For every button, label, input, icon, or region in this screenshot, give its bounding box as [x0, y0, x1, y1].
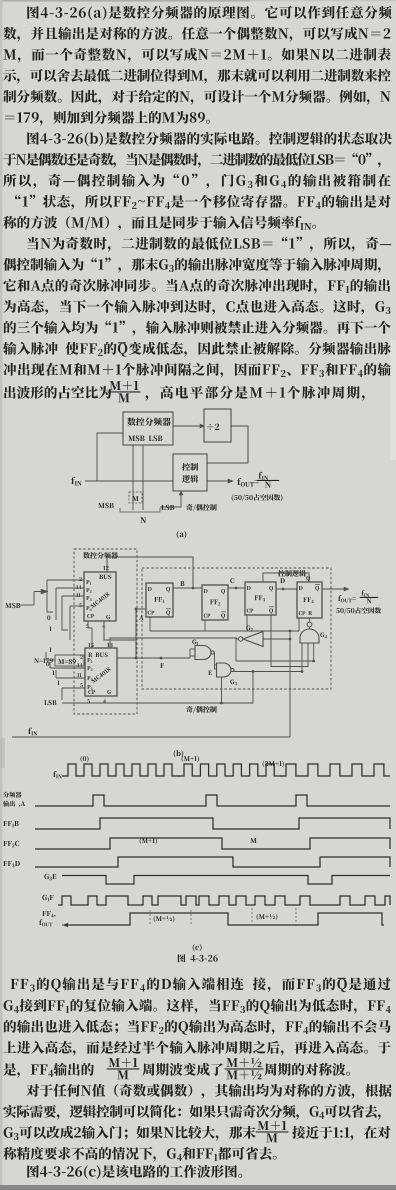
- wire fout b: [322, 588, 348, 590]
- waveform A label2: [3, 801, 25, 807]
- label: [127, 417, 171, 425]
- text line: [3, 69, 390, 84]
- label MSB: [98, 503, 114, 508]
- wire U2 pin13 right: [110, 638, 237, 648]
- label odd-even ctrl: [186, 504, 216, 511]
- label (M+1): [182, 756, 200, 763]
- wire G3 bottom input: [221, 677, 223, 703]
- label N=179: [34, 658, 53, 663]
- clock rail: [150, 630, 299, 632]
- text line: [27, 6, 391, 20]
- text line: [5, 111, 210, 126]
- U2 input stubs: [45, 652, 47, 660]
- clock riser from fin: [289, 631, 291, 737]
- waveform fout arrow: [62, 924, 74, 926]
- label MC4018: [91, 667, 111, 684]
- fout frac: [259, 472, 269, 480]
- label (M+1/2) 1: [154, 916, 175, 923]
- text line: [4, 386, 111, 399]
- wire pin12 up-right: [107, 557, 193, 588]
- text line: [15, 195, 391, 210]
- wire D: [276, 588, 297, 590]
- label fout b: [338, 595, 356, 602]
- waveform F: [58, 896, 390, 905]
- label (0): [81, 756, 89, 763]
- text line: [27, 237, 391, 252]
- arrowhead: [41, 589, 48, 594]
- label G1: [192, 639, 198, 645]
- flip-flop FF3: [245, 582, 276, 615]
- U2 P labels: [87, 658, 92, 663]
- label: [128, 435, 162, 441]
- waveform fout label2: [39, 919, 52, 926]
- label (M+1/2) 2: [257, 914, 278, 921]
- label LSB: [161, 505, 174, 510]
- junction F2: [160, 657, 163, 660]
- M dashed box: [129, 492, 142, 503]
- text line: [26, 1084, 391, 1099]
- wire N msb: [132, 445, 134, 510]
- wire B: [173, 587, 202, 589]
- label A: [139, 615, 144, 620]
- wire odd-even: [62, 672, 253, 703]
- label M=89: [58, 659, 76, 664]
- text line: [27, 1165, 242, 1179]
- label B: [180, 581, 184, 586]
- wire fout: [207, 480, 232, 482]
- label F: [160, 663, 164, 668]
- fout frac b: [361, 590, 369, 597]
- label: [207, 424, 219, 430]
- flip-flop FF2: [202, 585, 228, 620]
- text line: [4, 1126, 256, 1141]
- label R BUS: [88, 653, 107, 658]
- U1 input wires: [47, 579, 84, 581]
- waveform E: [62, 876, 390, 885]
- wire lsb control: [160, 491, 181, 507]
- text line: [4, 321, 391, 336]
- U2 pin numbers: [80, 655, 82, 659]
- waveform F label: [42, 895, 53, 901]
- text line: [3, 1105, 380, 1120]
- text line: [3, 48, 390, 63]
- label D: [280, 578, 285, 583]
- wire N lsb: [142, 445, 144, 510]
- wire divider to div2: [173, 425, 204, 427]
- waveform D label: [3, 861, 20, 867]
- label G2: [246, 625, 253, 631]
- text line: [178, 954, 218, 962]
- label N: [140, 517, 146, 523]
- text line: [292, 1126, 390, 1141]
- label duty: [232, 494, 283, 501]
- text line: [3, 27, 390, 42]
- label: [278, 570, 306, 577]
- text line: [3, 1147, 276, 1162]
- label fout: [237, 478, 259, 487]
- label Q above FF4: [306, 576, 310, 581]
- label (2M+1): [263, 761, 284, 768]
- wire fin: [85, 480, 173, 482]
- junction C: [235, 587, 238, 590]
- waveform fout: [70, 913, 384, 925]
- fraction: [110, 381, 139, 390]
- wire E vertical: [214, 653, 216, 670]
- text line: [3, 279, 390, 294]
- text line: [146, 386, 365, 401]
- digit labels: [49, 647, 51, 652]
- U1 P labels: [86, 580, 91, 585]
- waveform B label: [3, 821, 18, 827]
- text line: [3, 216, 316, 231]
- label odd-even: [186, 706, 216, 713]
- caption a: [177, 531, 187, 539]
- flip-flop FF1: [146, 583, 173, 617]
- dashed box digital divider: [74, 549, 137, 714]
- gate G3: [217, 663, 232, 677]
- wire A down to F: [135, 640, 137, 658]
- label: [182, 463, 198, 471]
- label CP G: [88, 690, 95, 694]
- junction D: [282, 588, 285, 591]
- waveform fin clock3: [280, 764, 390, 776]
- waveform A label: [3, 792, 21, 798]
- text line: [3, 363, 390, 378]
- caption c: [193, 944, 202, 952]
- wire C: [228, 587, 245, 589]
- waveform C label: [3, 841, 19, 847]
- label duty b: [336, 607, 381, 614]
- IC U2 MC4018: [85, 648, 117, 696]
- U1 pin numbers: [79, 577, 81, 581]
- gate G1: [195, 646, 211, 660]
- waveform fin label: [53, 771, 62, 778]
- text line: [3, 153, 380, 168]
- inverter G2: [243, 632, 263, 647]
- label: [83, 552, 118, 559]
- label (M+1) c: [140, 838, 158, 845]
- wire G3 out rail: [234, 643, 302, 672]
- text line: [264, 1063, 350, 1076]
- label MC4018: [90, 592, 110, 609]
- caption b: [174, 750, 184, 757]
- dashed box control logic: [142, 568, 331, 689]
- wire fin up to divider: [97, 433, 123, 481]
- vignette / smudges: [0, 0, 250, 2]
- IC U1 MC4018: [84, 572, 116, 621]
- control logic box: [173, 454, 207, 491]
- fraction: [226, 1058, 261, 1067]
- U1 bottom pins: [86, 624, 89, 628]
- text line: [142, 1063, 222, 1076]
- waveform fout label: [42, 911, 55, 917]
- text line: [4, 999, 391, 1014]
- digit labels: [47, 615, 50, 620]
- waveform E label: [44, 874, 56, 880]
- label G: [106, 615, 110, 619]
- waveform D: [35, 857, 390, 867]
- junction F1: [135, 657, 138, 660]
- gate G4: [300, 629, 319, 643]
- label fin: [71, 477, 81, 486]
- dashes around labels: [149, 910, 151, 926]
- wire FF3 qbar rail: [271, 615, 308, 667]
- N underbrace: [120, 508, 160, 512]
- CP risers: [149, 617, 151, 631]
- M=89 box: [55, 655, 84, 666]
- label MSB: [5, 603, 20, 608]
- divide-by-2 box: [204, 409, 231, 442]
- label: [182, 475, 198, 483]
- text line: [3, 258, 380, 273]
- text line: [4, 1020, 391, 1035]
- wire U1 G to A: [104, 609, 146, 640]
- label M c: [250, 838, 256, 843]
- waveform A: [35, 795, 390, 806]
- fraction: [258, 1121, 287, 1130]
- wire U2 pin15 to U1: [88, 621, 92, 648]
- wire div2 feedback: [207, 426, 248, 463]
- label CP: [87, 614, 94, 618]
- junction A: [135, 608, 138, 611]
- text line: [3, 300, 390, 315]
- junction dots G4 rails: [301, 670, 304, 673]
- label LSB: [44, 700, 56, 705]
- fraction: [109, 1058, 138, 1067]
- wire G2 in: [263, 638, 290, 640]
- text line: [3, 1041, 390, 1056]
- block diagram a: divider box: [123, 412, 173, 445]
- waveform C: [35, 838, 390, 849]
- wire G2 out rail: [236, 639, 314, 661]
- fin line b: [12, 736, 290, 738]
- label C: [230, 578, 234, 583]
- label pins15 13: [88, 643, 93, 647]
- wire G1 inputs: [190, 648, 195, 650]
- text line: [3, 174, 390, 189]
- label pin12: [103, 566, 108, 570]
- waveform fin clock: [62, 764, 180, 776]
- label G3: [230, 679, 237, 685]
- text line: [3, 342, 391, 357]
- label BUS: [99, 575, 111, 580]
- label G4: [320, 632, 327, 638]
- flip-flop FF4: [297, 582, 322, 618]
- waveform B: [35, 818, 390, 829]
- label E: [208, 671, 212, 675]
- label fin b: [28, 728, 37, 736]
- waveform fin clock2: [178, 764, 282, 776]
- wire msb: [20, 604, 34, 606]
- text line: [3, 1063, 94, 1078]
- text line: [11, 977, 391, 992]
- wire Q3 top link: [263, 573, 309, 582]
- wire F line: [117, 657, 190, 659]
- U2 bottom pins: [87, 699, 90, 703]
- junction B: [192, 587, 195, 590]
- text line: [3, 90, 390, 105]
- label M: [132, 496, 138, 501]
- text line: [27, 132, 392, 146]
- U2 input wires: [46, 659, 55, 661]
